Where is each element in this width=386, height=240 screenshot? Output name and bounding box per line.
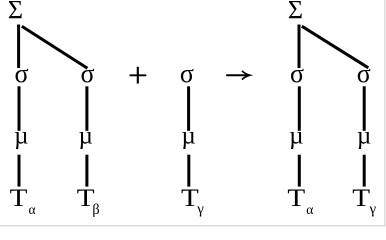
edge mu4 to T-alpha2 [298, 155, 301, 187]
frame bottom border [0, 225, 385, 227]
svg-text:µ: µ [78, 122, 92, 149]
edge sigma5 to mu5 [363, 86, 366, 131]
svg-text:µ: µ [14, 122, 28, 149]
svg-text:γ: γ [196, 202, 204, 218]
edge right Sigma to sigma5 (diagonal) [302, 26, 369, 68]
plus sign horizontal stroke [130, 74, 147, 76]
edge sigma1 to mu1 [18, 86, 21, 131]
svg-text:Σ: Σ [8, 0, 23, 25]
svg-text:σ: σ [80, 59, 94, 88]
svg-text:µ: µ [357, 122, 371, 149]
edge mu1 to T-alpha [18, 155, 21, 187]
edge sigma4 to mu4 [298, 86, 301, 131]
edge left Sigma to sigma2 (diagonal) [22, 26, 88, 68]
svg-text:σ: σ [357, 59, 371, 88]
frame right border [384, 0, 386, 226]
plus sign vertical stroke [137, 67, 139, 84]
svg-text:σ: σ [14, 59, 28, 88]
svg-text:α: α [306, 202, 313, 217]
svg-text:T: T [352, 183, 370, 212]
svg-text:γ: γ [369, 202, 377, 218]
svg-text:µ: µ [181, 122, 195, 149]
svg-text:σ: σ [180, 59, 194, 88]
svg-text:α: α [29, 202, 36, 217]
edge mu3 to T-gamma [187, 155, 190, 187]
edge sigma3 to mu3 [187, 86, 190, 131]
arrow head [242, 71, 250, 80]
svg-text:β: β [92, 202, 99, 218]
edge mu5 to T-gamma2 [363, 155, 366, 187]
svg-text:σ: σ [290, 59, 304, 88]
arrow shaft [226, 74, 247, 76]
svg-text:Σ: Σ [288, 0, 303, 25]
svg-text:T: T [287, 183, 305, 212]
edge left Sigma to sigma1 (vertical) [17, 25, 20, 69]
edge right Sigma to sigma4 (vertical) [298, 25, 301, 69]
edge sigma2 to mu2 [85, 86, 88, 131]
svg-text:µ: µ [289, 122, 303, 149]
svg-text:T: T [10, 183, 28, 212]
edge mu2 to T-beta [85, 155, 88, 187]
